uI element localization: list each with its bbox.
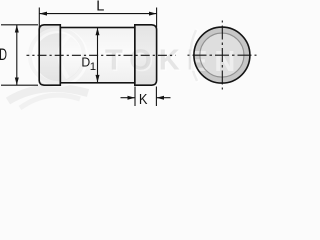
end view: vertical centerline xyxy=(221,21,223,90)
watermark: arc around end view xyxy=(191,29,198,82)
dimension D: top arrowhead xyxy=(15,25,19,33)
dimension D: extension line bottom xyxy=(1,84,38,86)
dimension D1: line xyxy=(97,28,99,83)
svg-text:L: L xyxy=(96,0,104,15)
svg-text:1: 1 xyxy=(90,61,96,73)
end view: inner circle outline xyxy=(200,33,244,77)
dimension K: left arrow line xyxy=(121,97,135,99)
right cap outline xyxy=(135,25,157,85)
watermark: TOKEN logo ring xyxy=(30,29,242,84)
end view: horizontal centerline xyxy=(188,54,257,56)
end view: inner circle fill (body diameter D1) xyxy=(200,33,244,77)
end view: outer circle fill (cap diameter D) xyxy=(194,27,250,83)
left cap outline xyxy=(39,25,60,85)
left cap fill xyxy=(39,25,60,85)
svg-text:D: D xyxy=(0,45,7,64)
dimension L: right arrowhead xyxy=(149,12,157,16)
dimension D1: top arrowhead xyxy=(96,28,100,36)
dimension D: bottom arrowhead xyxy=(15,78,19,86)
dimension K: right arrow line xyxy=(157,97,171,99)
middle body fill (ceramic) xyxy=(60,28,135,83)
dimension K: right arrowhead (points left) xyxy=(156,96,164,100)
dimension D: line xyxy=(16,25,18,85)
dimension K: extension line left xyxy=(134,87,136,107)
dimension D: extension line top xyxy=(1,24,38,26)
dimension L: line xyxy=(39,13,156,15)
svg-text:K: K xyxy=(139,90,148,107)
centerline of side view xyxy=(27,54,176,56)
middle body outline xyxy=(60,28,135,83)
dimension L: left arrowhead xyxy=(39,12,47,16)
dimension K: extension line right xyxy=(155,87,157,107)
dimension L: extension line right xyxy=(156,8,158,28)
watermark swirl below body (background) xyxy=(8,88,88,101)
end view: outer circle outline xyxy=(194,27,250,83)
right cap fill xyxy=(135,25,157,85)
dimension D1: bottom arrowhead xyxy=(96,75,100,83)
dimension K: left arrowhead (points right) xyxy=(128,96,136,100)
dimension L: extension line left xyxy=(38,8,40,28)
